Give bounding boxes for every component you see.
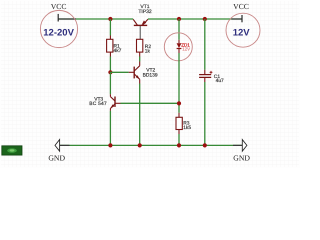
supply VCC2 symbol bar <box>241 15 243 22</box>
wire top rail right segment <box>148 18 242 20</box>
zener diode ZD1 <box>177 43 182 48</box>
resistor R2 <box>137 39 143 52</box>
wire R3 to bottom rail <box>178 134 180 145</box>
wire VT2 emitter down <box>139 84 141 146</box>
wire VT3 emitter down <box>109 111 111 146</box>
pin R3 bottom <box>178 130 180 135</box>
svg-text:4k7: 4k7 <box>114 48 122 54</box>
wire R1 bottom to junction <box>109 57 111 73</box>
junction bottom rail / C1 <box>203 143 207 147</box>
watermark badge <box>2 146 22 155</box>
arrow VT3 emitter <box>110 104 114 108</box>
junction node R1/VT2 base/VT3 collector <box>108 70 112 74</box>
junction bottom rail / VT2 emitter <box>138 143 142 147</box>
ground GND2 arrow <box>242 140 247 152</box>
pin R2 bottom <box>139 52 141 56</box>
wire R1 top <box>109 19 111 36</box>
svg-text:GND: GND <box>48 153 65 162</box>
arrow VT2 emitter <box>136 75 140 79</box>
pin VT1 base line <box>139 26 141 40</box>
junction node Y2 (VT3 base / zener / R3) <box>177 101 181 105</box>
pin GND1 stub <box>59 144 69 146</box>
capacitor C1 plates <box>199 74 211 76</box>
svg-text:12V: 12V <box>182 47 190 52</box>
wire C1 to bottom rail <box>204 82 206 145</box>
wire VT3 base to zener node <box>121 102 180 104</box>
svg-text:GND: GND <box>233 153 250 162</box>
junction top rail / ZD1 <box>177 17 181 21</box>
arrow VT1 emitter <box>141 21 146 26</box>
pin ZD1 cathode <box>178 49 180 54</box>
wire bottom rail <box>59 144 242 146</box>
wire C1 column top <box>204 19 206 70</box>
svg-text:BC 547: BC 547 <box>89 101 107 107</box>
svg-text:VCC: VCC <box>233 2 249 11</box>
pin GND2 stub <box>233 144 242 146</box>
pin R1 bottom <box>109 52 111 56</box>
wire junction to VT2 base <box>110 71 128 73</box>
resistor R3 <box>176 117 182 129</box>
svg-text:12V: 12V <box>233 28 251 39</box>
pin VCC2 stub (black) <box>232 18 243 20</box>
junction top rail / C1 <box>203 17 207 21</box>
svg-text:12-20V: 12-20V <box>43 28 74 39</box>
pin VT3 base <box>115 102 120 104</box>
wire zener to node Y2 and R3 <box>178 53 180 113</box>
svg-text:VCC: VCC <box>51 2 67 11</box>
pin VT2 base <box>129 71 134 73</box>
wire VT1 base column: R2 bottom to VT2 collector <box>139 57 141 62</box>
svg-text:1k: 1k <box>145 49 151 55</box>
transistor VT1 (PNP TIP32) <box>133 19 148 25</box>
transistor VT3 (NPN BC547, mirrored) <box>110 94 115 111</box>
wire zener column top <box>178 19 180 40</box>
junction bottom rail / R3 <box>177 143 181 147</box>
svg-text:VT2: VT2 <box>146 67 155 73</box>
pin C1 plus <box>204 70 206 74</box>
wire VT3 collector (from junction down) <box>109 72 111 94</box>
resistor R1 <box>107 39 113 52</box>
svg-text:BD139: BD139 <box>143 73 158 79</box>
pin C1 minus <box>204 77 206 82</box>
pin R1 top <box>109 36 111 40</box>
transistor VT2 (NPN BD139) <box>134 62 140 84</box>
plus sign C1 <box>210 71 213 73</box>
junction top rail / R1 <box>108 17 112 21</box>
junction bottom rail / VT3 emitter <box>108 143 112 147</box>
highlight circle around VCC1 <box>40 10 77 47</box>
svg-text:1k5: 1k5 <box>183 125 191 131</box>
ground GND1 arrow <box>55 140 60 152</box>
pin VCC1 stub (black) <box>58 18 76 20</box>
pin ZD1 anode <box>178 40 180 44</box>
highlight circle around VCC2 <box>226 13 260 47</box>
supply VCC1 symbol bar <box>57 14 59 22</box>
svg-text:TIP32: TIP32 <box>138 9 152 15</box>
highlight circle around ZD1 <box>164 33 192 61</box>
wire top rail left segment <box>58 18 133 20</box>
svg-text:4u7: 4u7 <box>216 78 224 84</box>
pin R3 top <box>178 113 180 118</box>
